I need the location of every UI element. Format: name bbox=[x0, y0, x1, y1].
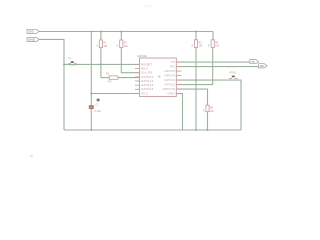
svg-text:PROG: PROG bbox=[229, 72, 236, 75]
svg-text:VCC: VCC bbox=[141, 91, 148, 95]
svg-text:0.1uF: 0.1uF bbox=[94, 109, 101, 113]
svg-text:GPIO5: GPIO5 bbox=[164, 69, 175, 73]
svg-text:RX: RX bbox=[170, 65, 175, 69]
svg-text:GND: GND bbox=[28, 38, 36, 42]
svg-text:VCC: VCC bbox=[144, 3, 153, 8]
svg-text:GND: GND bbox=[168, 92, 175, 96]
svg-text:RX: RX bbox=[260, 64, 264, 68]
svg-text:GPIO15: GPIO15 bbox=[162, 87, 175, 91]
svg-text:TX: TX bbox=[251, 60, 255, 64]
svg-text:470: 470 bbox=[108, 81, 113, 84]
svg-text:GPIO4: GPIO4 bbox=[164, 74, 175, 78]
svg-text:ESP12E: ESP12E bbox=[138, 55, 148, 58]
svg-text:GPIO0: GPIO0 bbox=[164, 78, 175, 82]
svg-text:3V3: 3V3 bbox=[28, 30, 34, 34]
svg-text:GPIO2: GPIO2 bbox=[164, 83, 175, 87]
svg-text:TX: TX bbox=[171, 60, 175, 64]
